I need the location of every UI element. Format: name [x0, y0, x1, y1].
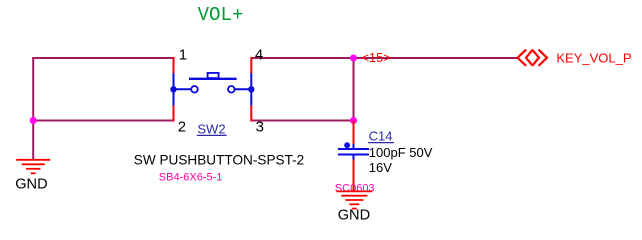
C14 polarity dot	[344, 142, 350, 148]
pin 1 of SW2	[173, 57, 175, 73]
wire top-left horizontal	[32, 57, 173, 59]
SW2 left contact circle	[191, 86, 198, 93]
ground symbol right	[336, 191, 372, 208]
wire to off-page port	[354, 57, 518, 59]
C14 top lead stub	[353, 144, 355, 149]
svg-text:VOL+: VOL+	[198, 4, 244, 26]
pin 3 of SW2	[250, 106, 252, 122]
SW2 actuator bar	[189, 78, 237, 80]
svg-text:4: 4	[255, 47, 263, 64]
C14 bottom lead stub	[353, 155, 355, 160]
SW2 right lead to contact	[235, 88, 252, 90]
capacitor C14 pin top	[353, 121, 355, 147]
wire bottom-left horizontal	[32, 120, 173, 122]
SW2 right contact circle	[228, 86, 235, 93]
svg-text:KEY_VOL_P: KEY_VOL_P	[556, 50, 631, 65]
wire left GND drop	[32, 121, 34, 161]
svg-text:100pF 50V: 100pF 50V	[369, 145, 433, 160]
capacitor C14 pin bottom	[353, 158, 355, 191]
svg-text:SC0603: SC0603	[335, 182, 375, 194]
SW2 right terminal vertical	[250, 73, 252, 106]
C14 bottom plate	[338, 154, 369, 156]
SW2 left terminal dot	[170, 86, 176, 92]
wire top-right horizontal	[251, 57, 353, 59]
pin 2 of SW2	[173, 106, 175, 122]
wire right vertical	[353, 57, 355, 122]
ground symbol left	[16, 160, 50, 174]
SW2 actuator tab	[208, 73, 219, 78]
wire left vertical	[32, 57, 34, 122]
C14 top plate	[338, 148, 369, 150]
off-page connector symbol	[518, 50, 547, 65]
junction dot left	[30, 117, 37, 124]
switch SW2 body	[174, 73, 252, 106]
svg-text:GND: GND	[15, 176, 47, 192]
junction dot right bottom	[350, 117, 357, 124]
svg-text:GND: GND	[338, 207, 370, 223]
SW2 underline	[197, 134, 227, 136]
junction dot right top	[350, 55, 357, 62]
svg-text:16V: 16V	[369, 160, 392, 175]
pin 4 of SW2	[250, 57, 252, 73]
svg-text:SB4-6X6-5-1: SB4-6X6-5-1	[159, 171, 223, 183]
SW2 right terminal dot	[248, 86, 254, 92]
wire bottom-right horizontal	[251, 120, 353, 122]
svg-text:C14: C14	[369, 128, 393, 143]
svg-text:3: 3	[256, 119, 264, 136]
svg-text:SW2: SW2	[197, 121, 225, 136]
C14 underline	[368, 142, 394, 144]
capacitor C14 body	[338, 144, 369, 160]
svg-text:<15>: <15>	[362, 50, 391, 65]
SW2 left terminal vertical	[173, 73, 175, 106]
svg-text:2: 2	[178, 119, 186, 136]
SW2 left lead to contact	[174, 88, 192, 90]
svg-text:1: 1	[179, 47, 187, 64]
svg-text:SW PUSHBUTTON-SPST-2: SW PUSHBUTTON-SPST-2	[134, 153, 304, 168]
